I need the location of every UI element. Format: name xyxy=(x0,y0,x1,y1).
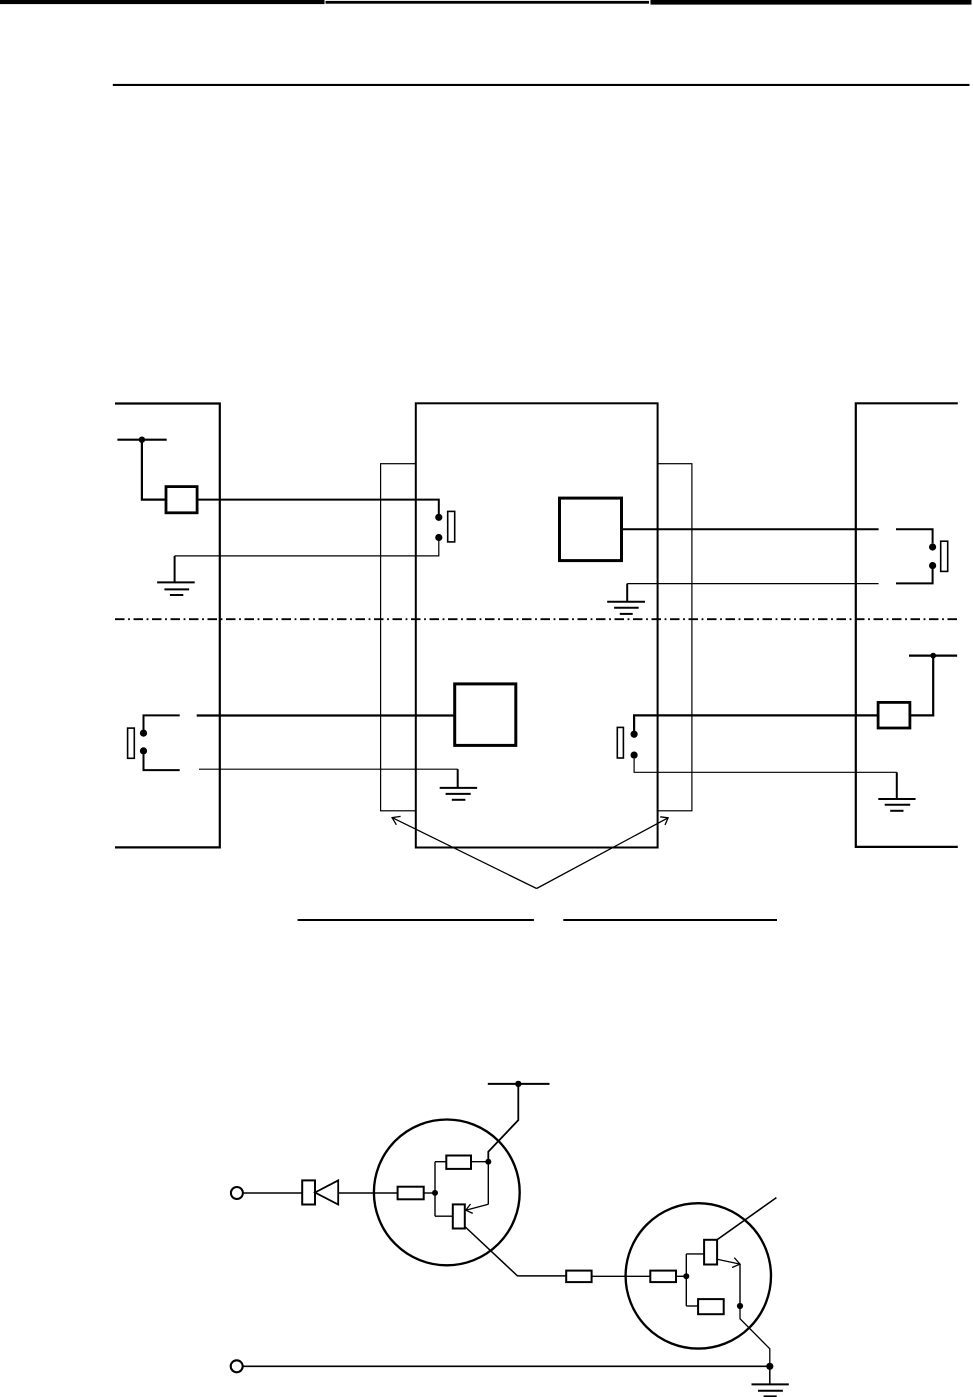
pin 2 CNC lower right xyxy=(631,752,638,759)
node collector Q1 xyxy=(485,1159,491,1165)
wire base node vertical xyxy=(434,1162,436,1217)
node emitter junction Q2 xyxy=(737,1303,743,1309)
ground CNC upper xyxy=(607,584,645,614)
connector CB104 (left) xyxy=(381,464,416,811)
transistor Q1 body bar xyxy=(453,1204,465,1228)
node base Q2 xyxy=(683,1273,689,1279)
pin housing right machine xyxy=(941,541,948,571)
pin 1 CNC lower right xyxy=(631,731,638,738)
pin 1 of CB104 xyxy=(435,514,442,521)
wire emitter Q1 diagonal out xyxy=(465,1227,566,1276)
wire 0V return to CNC ground xyxy=(627,583,878,585)
resistor R5 emitter-ground xyxy=(698,1299,724,1314)
wire 0V return to machine ground xyxy=(175,541,439,556)
diode D1 cathode bar xyxy=(302,1180,315,1204)
wire 0V return to CNC lower ground xyxy=(199,768,458,770)
pin 1 of CB105 right xyxy=(929,543,936,550)
relay RL1 coil xyxy=(166,487,197,513)
transistor cell Q1 circle xyxy=(374,1120,520,1266)
wire contact hook lower right xyxy=(896,569,933,583)
node +24V tap left xyxy=(117,437,166,443)
wire contact hook upper right xyxy=(896,529,933,543)
pin 2 of CB105 right xyxy=(929,562,936,569)
ground CNC lower xyxy=(440,769,477,800)
node ground rail junction xyxy=(766,1363,773,1370)
leader arrow to right connector xyxy=(537,817,669,889)
transistor Q2 body bar xyxy=(704,1240,717,1265)
resistor R2 base-collector xyxy=(446,1156,471,1169)
CNC control unit box xyxy=(416,403,658,847)
connector CB105 (right) xyxy=(658,464,692,811)
machine side cabinet left (open-left box) xyxy=(115,404,220,848)
ground symbol bottom circuit xyxy=(752,1366,789,1396)
wire emitter Q2 down xyxy=(739,1264,741,1306)
wire contact hook upper left xyxy=(144,715,180,736)
arrow into Q1 base bar xyxy=(466,1204,489,1213)
page header rule xyxy=(113,84,970,86)
arrow emitter Q2 xyxy=(717,1258,740,1268)
relay RL2 coil xyxy=(878,702,910,728)
wire DI signal to connector pin xyxy=(197,500,439,514)
wire base node vertical Q2 xyxy=(685,1254,687,1306)
resistor R1 base input xyxy=(398,1187,424,1200)
wire to resistor R2 xyxy=(435,1161,446,1163)
wire R3 to R4 xyxy=(592,1275,651,1277)
wire diode to resistor R1 xyxy=(338,1192,397,1194)
pin 2 of CB104 xyxy=(435,534,442,541)
wire terminal to diode D1 xyxy=(243,1192,303,1194)
pin housing machine left lower xyxy=(128,728,135,758)
node +24V tap right xyxy=(909,653,957,659)
resistor R4 base input Q2 xyxy=(650,1271,676,1283)
leader arrow to left connector xyxy=(392,816,536,888)
page header bar middle segment xyxy=(326,1,650,4)
receiver RV1 in control unit xyxy=(455,684,516,746)
+V power rail bottom circuit xyxy=(488,1081,550,1087)
wire R1 to base node xyxy=(424,1192,435,1194)
input terminal circle xyxy=(231,1187,243,1199)
wire base node to Q1 bar xyxy=(435,1215,453,1217)
wire R4 to base node Q2 xyxy=(676,1275,686,1277)
wire relay RL1 feed xyxy=(142,440,166,500)
node base Q1 xyxy=(432,1190,438,1196)
wire relay RL2 to +24V node xyxy=(910,656,933,716)
wire contact hook lower left xyxy=(144,755,180,771)
boundary dash-dot line machine/CNC xyxy=(115,618,957,620)
wire to Q2 bar top xyxy=(686,1253,704,1255)
label underline right xyxy=(563,919,777,921)
wire collector Q2 leader xyxy=(716,1198,776,1241)
wire base hook to R5 xyxy=(686,1305,698,1307)
transistor cell Q2 circle xyxy=(626,1203,771,1348)
wire R2 to collector node xyxy=(471,1161,488,1163)
machine side cabinet right (open-right box) xyxy=(856,403,958,847)
pin housing CB104 xyxy=(448,511,455,542)
wire collector down Q1 xyxy=(487,1162,489,1205)
label underline left xyxy=(298,919,534,921)
wire emitter to ground rail xyxy=(740,1306,770,1366)
ground rail bottom circuit xyxy=(243,1365,770,1367)
wire DO signal to machine right xyxy=(622,528,879,530)
ground machine right xyxy=(878,772,915,811)
page header bar right segment xyxy=(651,0,972,5)
wire DI signal to receiver RV1 xyxy=(197,714,455,716)
diode D1 triangle xyxy=(315,1180,338,1204)
pin housing CNC right lower xyxy=(617,727,623,758)
ground terminal circle xyxy=(231,1360,243,1372)
contact pin 1 lower left xyxy=(140,730,147,737)
wire collector drop from rail xyxy=(488,1084,518,1162)
wire DO signal to relay RL2 xyxy=(634,715,878,737)
ground machine left xyxy=(157,556,195,595)
wire 0V return to machine right ground xyxy=(634,759,897,773)
driver DV1 in control unit xyxy=(560,498,622,560)
page header bar left segment xyxy=(0,0,325,4)
contact pin 2 lower left xyxy=(140,747,147,754)
resistor R3 series link xyxy=(566,1271,591,1283)
